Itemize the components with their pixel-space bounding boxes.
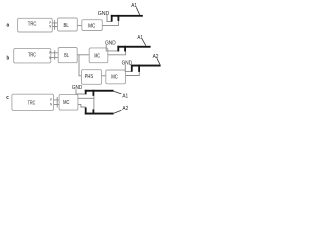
- leader line A1 (a): [136, 7, 139, 15]
- wire GND to antenna ground stub (c): [76, 89, 86, 94]
- connector tick (a): [54, 20, 56, 30]
- wire GND to antenna ground stub (b bottom): [125, 65, 131, 72]
- block BL (b): [58, 48, 77, 63]
- svg-text:BL: BL: [64, 23, 69, 29]
- block MC (c): [59, 94, 78, 110]
- wire BL-MC (a): [77, 25, 82, 27]
- block MC top (b): [89, 48, 108, 63]
- wire MC feed 2 to antenna A2 (c): [78, 104, 86, 107]
- svg-text:MC: MC: [94, 54, 100, 60]
- leader line A1 (b): [142, 39, 146, 46]
- wire PHS to MC bottom (b): [102, 75, 106, 77]
- wire MC feed 1 to antenna A1 (c): [78, 97, 94, 99]
- svg-text:A2: A2: [153, 54, 159, 60]
- svg-text:GND: GND: [122, 60, 132, 66]
- svg-text:A2: A2: [122, 106, 128, 112]
- antenna A1 ground stub (c): [85, 90, 87, 95]
- antenna A2 feed stub (b): [138, 65, 140, 72]
- antenna A2 ground stub (c): [85, 107, 87, 114]
- antenna A2 bar (c): [85, 113, 114, 115]
- wire branch down to PHS (b): [79, 55, 82, 76]
- block BL (a): [58, 18, 78, 31]
- svg-text:A1: A1: [131, 3, 137, 9]
- wire differential pair TRC-BL (b): [51, 53, 58, 58]
- svg-text:PHS: PHS: [85, 74, 94, 80]
- antenna A1 bar (c): [85, 90, 114, 92]
- wire MC feed to antenna (a): [102, 21, 118, 26]
- block TRC (a): [18, 18, 53, 32]
- svg-text:b: b: [7, 55, 10, 61]
- block TRC (c): [12, 94, 54, 110]
- wire MC bottom feed to antenna (b bottom): [126, 72, 140, 76]
- antenna A1 bar (b): [117, 46, 150, 48]
- svg-text:GND: GND: [72, 85, 82, 91]
- wire BL to MC top (b): [77, 54, 89, 56]
- svg-text:MC: MC: [63, 100, 69, 106]
- connector tick (b): [54, 50, 56, 59]
- antenna A1 bar (a): [111, 15, 143, 17]
- leader line A1 (c): [114, 91, 122, 94]
- wire GND to antenna ground stub (b top): [106, 45, 118, 51]
- leader line A2 (c): [114, 110, 122, 113]
- wire differential pair TRC-MC (c): [54, 100, 60, 105]
- antenna A1 ground stub (b): [117, 46, 119, 52]
- svg-text:TRC: TRC: [28, 22, 37, 28]
- antenna A2 ground stub (b): [131, 65, 133, 72]
- antenna A1 feed stub (c): [93, 90, 95, 96]
- wire vertical feed link (c): [93, 96, 95, 110]
- svg-text:A1: A1: [122, 94, 128, 100]
- block MC bottom (b): [106, 70, 126, 84]
- block PHS (b): [82, 70, 102, 85]
- wire differential pair TRC-BL (a): [52, 23, 57, 27]
- connector tick (c): [56, 97, 58, 108]
- svg-text:TRC: TRC: [28, 101, 35, 107]
- svg-text:MC: MC: [111, 75, 118, 81]
- svg-text:TRC: TRC: [28, 53, 36, 59]
- svg-text:BL: BL: [64, 53, 69, 59]
- antenna A2 feed stub (c): [93, 109, 95, 114]
- wire GND to antenna ground stub (a): [107, 15, 112, 22]
- wire MC top feed to antenna (b top): [108, 51, 126, 55]
- svg-text:GND: GND: [98, 11, 110, 17]
- antenna A1 feed stub (a): [118, 15, 120, 21]
- block TRC (b): [14, 48, 51, 63]
- antenna A1 ground stub (a): [111, 15, 113, 22]
- svg-text:MC: MC: [88, 24, 95, 30]
- svg-text:GND: GND: [105, 41, 116, 47]
- leader line A2 (b): [157, 58, 160, 64]
- svg-text:A1: A1: [137, 35, 142, 41]
- antenna A1 feed stub (b): [124, 46, 126, 52]
- block MC (a): [82, 20, 103, 31]
- antenna A2 bar (b): [131, 65, 161, 67]
